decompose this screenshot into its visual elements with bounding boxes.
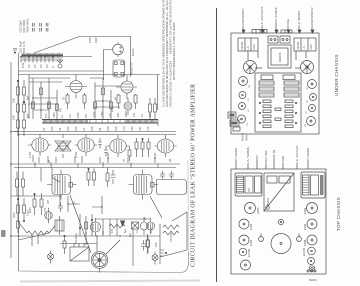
coupling capacitor mid — [58, 202, 63, 212]
capacitor block C5 — [284, 87, 299, 91]
svg-text:4,5: 4,5 — [46, 64, 49, 68]
lower labels right cluster — [102, 216, 173, 247]
svg-text:390Ω: 390Ω — [125, 111, 128, 117]
svg-text:C7: C7 — [83, 127, 86, 131]
valve V11 — [239, 219, 253, 230]
HT drop wire — [130, 36, 132, 77]
mains connector block — [228, 112, 240, 131]
svg-text:OUTPUT IMPEDANCES 4, 8 AND 16: OUTPUT IMPEDANCES 4, 8 AND 16 OHMS — [172, 22, 176, 80]
coupling capacitors left pair — [16, 172, 25, 197]
terminal strip left — [238, 38, 258, 51]
label MAINS TRANS — [272, 149, 276, 169]
svg-text:C8: C8 — [99, 127, 102, 131]
input socket right — [297, 234, 302, 242]
svg-text:10K: 10K — [12, 115, 16, 120]
svg-text:EL84: EL84 — [303, 223, 307, 230]
svg-text:O/P TRANS: O/P TRANS — [306, 148, 310, 164]
anode bus wire — [14, 167, 176, 169]
fuse holder top — [278, 219, 283, 224]
svg-text:V1: V1 — [144, 216, 147, 220]
tag strip end hook — [157, 120, 159, 127]
svg-text:R15: R15 — [75, 126, 78, 131]
svg-text:INPUT: INPUT — [245, 133, 249, 141]
label LOUDSPEAKER TERMINALS — [246, 147, 250, 169]
anode load resistors mid — [33, 193, 43, 215]
connector tab left — [252, 30, 267, 34]
long bus wire A — [14, 131, 176, 133]
pilot lamp L2 — [152, 252, 158, 265]
board interconnect wires — [248, 51, 307, 74]
voltage selector box — [70, 243, 89, 261]
output valve V8 — [107, 135, 129, 157]
svg-text:L.S.: L.S. — [247, 45, 250, 50]
svg-text:C10: C10 — [123, 126, 126, 131]
value labels smoothing block — [19, 40, 27, 53]
splitter anode resistors — [66, 93, 137, 109]
input grid stopper — [17, 221, 20, 233]
stub pair a — [33, 23, 35, 32]
component body on wire a — [32, 102, 51, 109]
socket left b — [239, 92, 246, 99]
tag strip ticks — [43, 120, 156, 124]
svg-text:VOLT SEL: VOLT SEL — [264, 150, 268, 164]
capacitor block C3 — [259, 93, 274, 97]
valve type labels row — [29, 152, 172, 163]
svg-text:R41 4.7K: R41 4.7K — [22, 41, 26, 53]
divider rule — [216, 8, 218, 282]
feedback loop wires — [150, 196, 187, 257]
value labels left chain — [12, 95, 30, 120]
rail junction dots — [10, 131, 19, 237]
parts list column 1 — [162, 0, 166, 107]
svg-text:R21: R21 — [139, 126, 142, 131]
svg-text:47K: 47K — [112, 107, 115, 112]
value labels mid stage — [29, 207, 47, 213]
tag strip rail upper — [42, 119, 158, 121]
svg-text:INPUT: INPUT — [255, 155, 259, 164]
heater cable hatching — [23, 53, 63, 59]
label AC OUTLETS — [260, 6, 264, 33]
svg-text:A.C. OUTLETS: A.C. OUTLETS — [260, 6, 264, 27]
svg-text:R12: R12 — [51, 126, 54, 131]
socket right d — [307, 117, 316, 126]
feedback resistor zigzag — [163, 225, 179, 229]
svg-text:V7: V7 — [123, 158, 126, 162]
outlet box B — [280, 36, 290, 43]
svg-text:V2: V2 — [248, 109, 250, 112]
stub pair b — [40, 23, 42, 32]
connector tab right — [281, 30, 292, 33]
input valve V2 — [91, 218, 101, 236]
capacitor block C6 — [284, 93, 299, 97]
transformer labels T1 — [47, 199, 76, 204]
svg-text:4,5: 4,5 — [34, 64, 37, 68]
HT top wire — [78, 36, 131, 38]
output stage lower right — [147, 218, 155, 234]
svg-text:V8: V8 — [169, 158, 172, 162]
capacitor block C2 — [259, 87, 274, 91]
svg-text:UNDER CHASSIS: UNDER CHASSIS — [334, 54, 339, 96]
svg-text:CIRCUIT DIAGRAM OF LEAK ‘STERE: CIRCUIT DIAGRAM OF LEAK ‘STEREO 60’ POWE… — [190, 84, 197, 267]
svg-text:A.C. OUTLET: A.C. OUTLET — [295, 145, 299, 164]
label INPUT CABLE — [274, 7, 278, 33]
svg-text:47K: 47K — [45, 113, 48, 118]
svg-text:MAINS TR: MAINS TR — [272, 149, 276, 164]
svg-text:130Ω: 130Ω — [102, 162, 105, 168]
svg-text:V6: V6 — [307, 100, 309, 103]
ink blob — [1, 230, 6, 237]
mains transformer top — [264, 173, 294, 211]
svg-text:0.1: 0.1 — [141, 113, 144, 117]
svg-text:O/P TRANS: O/P TRANS — [234, 148, 238, 164]
svg-text:O/P: O/P — [248, 187, 251, 192]
HT rail left — [10, 62, 12, 258]
svg-text:22K: 22K — [12, 98, 16, 103]
socket labels right — [305, 87, 309, 127]
svg-text:1K: 1K — [102, 231, 105, 234]
interconnect wires mid — [19, 168, 61, 207]
interstage coupling network — [55, 134, 71, 158]
mains lead entry — [307, 270, 316, 272]
selector labels — [31, 232, 88, 246]
svg-text:130Ω: 130Ω — [34, 162, 37, 168]
capacitor block C4 — [284, 81, 299, 85]
tag strip rail lower — [42, 122, 158, 124]
pilot lamp — [309, 266, 315, 272]
svg-text:EL84: EL84 — [29, 152, 32, 158]
valve V14 — [241, 260, 251, 270]
socket left d — [238, 115, 246, 123]
svg-text:47Ω: 47Ω — [155, 242, 158, 247]
board caption right — [283, 75, 295, 80]
UNDER CHASSIS — [228, 6, 339, 141]
board bar labels — [0, 0, 1, 1]
lower right parts — [141, 234, 149, 254]
svg-text:L.S.: L.S. — [303, 45, 306, 50]
driver row wire — [95, 218, 150, 220]
svg-text:LOUDSPKR L: LOUDSPKR L — [241, 8, 245, 27]
svg-text:INPUT CABLE: INPUT CABLE — [274, 7, 278, 27]
svg-text:MAINS: MAINS — [37, 236, 40, 244]
svg-text:100K: 100K — [53, 112, 56, 118]
page edge right — [187, 160, 189, 252]
svg-text:0.1: 0.1 — [61, 114, 64, 118]
output transformer right — [301, 172, 325, 198]
mains entry caption — [309, 279, 317, 282]
pilot lamp L1 — [48, 251, 54, 264]
feed wire upper — [19, 70, 104, 72]
capacitor block C1 — [259, 81, 274, 85]
centre resistor pair — [275, 108, 281, 120]
heater stub wires — [21, 57, 53, 63]
svg-text:1M: 1M — [69, 115, 72, 118]
svg-text:47K: 47K — [44, 207, 47, 212]
svg-text:FUSE: FUSE — [281, 156, 285, 164]
label VOLTAGE SELECTOR — [264, 150, 268, 169]
bias network centre right — [135, 138, 150, 157]
cathode stubs row — [33, 155, 155, 163]
svg-text:EL84: EL84 — [75, 152, 78, 158]
svg-text:47K: 47K — [133, 112, 136, 117]
decoupling chain pair R5 R6 — [17, 120, 26, 136]
driver stage parts right — [149, 98, 157, 120]
driver choke — [55, 216, 64, 235]
socket left a — [239, 77, 248, 86]
parts list column 3 — [169, 0, 173, 107]
terminal strip right — [294, 38, 316, 51]
parts list column 4 — [172, 22, 176, 80]
label AC OUTLETS TOP — [295, 145, 299, 169]
label LOUDSPEAKER L — [241, 8, 245, 33]
second stage cluster — [79, 214, 92, 236]
output transformer left — [235, 173, 262, 196]
svg-text:FB 470K: FB 470K — [170, 232, 173, 242]
socket labels left — [247, 85, 251, 126]
socket right a — [308, 80, 317, 89]
svg-text:EF86: EF86 — [303, 239, 307, 246]
svg-text:V4: V4 — [249, 85, 251, 88]
mains input caption — [241, 133, 249, 141]
output valve V6 — [28, 134, 51, 156]
wire diagonal to HT line — [34, 37, 78, 53]
component body on wire b — [40, 88, 59, 111]
output transformer T2 — [129, 170, 159, 200]
component body on wire c — [94, 102, 113, 109]
svg-text:VOLTAGE: VOLTAGE — [75, 233, 78, 244]
svg-text:15Ω 8Ω: 15Ω 8Ω — [297, 42, 300, 50]
input coupling wires — [19, 222, 56, 240]
heater pin labels — [22, 63, 55, 68]
svg-text:C5: C5 — [59, 127, 62, 131]
svg-text:8µF: 8µF — [124, 228, 127, 233]
svg-text:LOUDSPKR R: LOUDSPKR R — [310, 7, 314, 27]
value labels below strip — [43, 126, 150, 131]
value labels lower row — [111, 227, 153, 233]
junction dots lower — [59, 195, 120, 236]
cathode resistor labels — [34, 162, 160, 168]
rail tie stubs — [11, 132, 19, 237]
svg-text:GZ34: GZ34 — [131, 48, 135, 56]
svg-text:440V: 440V — [89, 37, 92, 43]
DIVIDER — [216, 8, 218, 282]
TOP CHASSIS — [231, 145, 341, 282]
svg-text:C12: C12 — [147, 126, 150, 131]
svg-text:ECC81: ECC81 — [302, 247, 306, 256]
electrolytic marker — [120, 221, 125, 228]
svg-text:4,5: 4,5 — [28, 64, 31, 68]
svg-text:82K: 82K — [117, 112, 120, 117]
svg-text:22K: 22K — [149, 112, 152, 117]
resistor column right — [285, 100, 297, 128]
speaker terminal marks — [160, 250, 167, 256]
svg-text:350V WKG: 350V WKG — [26, 19, 30, 33]
resistor column left — [259, 100, 271, 128]
rectifier heater lead — [104, 50, 113, 81]
svg-text:470K: 470K — [13, 212, 16, 218]
svg-text:V3: V3 — [48, 159, 51, 163]
svg-text:COM: COM — [253, 44, 256, 50]
output valve V7 — [75, 134, 97, 156]
value labels input chain — [13, 209, 30, 218]
right feed rail — [157, 75, 159, 110]
svg-text:A.C. MAINS: A.C. MAINS — [297, 11, 301, 27]
input valve V1 — [45, 208, 53, 224]
mains transformer symbol — [113, 60, 125, 77]
valve base V2 — [301, 61, 314, 74]
lower bus wire 2 — [60, 243, 97, 245]
socket left c — [239, 103, 246, 110]
grid stopper marks row — [98, 138, 131, 161]
stub pair c — [46, 23, 48, 32]
earth rail — [18, 53, 20, 271]
grid leak resistor zigzag — [27, 231, 49, 235]
feedback loop box — [156, 180, 186, 195]
heater wire continuation — [63, 56, 92, 58]
decoupling chain pair R1 R2 — [17, 80, 26, 104]
svg-text:T1: T1 — [73, 201, 76, 204]
label FUSE TOP — [281, 156, 285, 169]
TITLE — [190, 84, 197, 267]
grid feed wire — [28, 75, 30, 120]
svg-text:6.3V: 6.3V — [22, 63, 25, 68]
decoupling chain pair R3 R4 — [17, 101, 26, 120]
valve V10 — [245, 203, 261, 215]
triode section small circle — [124, 98, 132, 115]
value labels above strip — [45, 111, 152, 118]
chassis outline — [231, 33, 319, 134]
svg-text:FUSE: FUSE — [286, 19, 290, 27]
reservoir capacitor can — [271, 234, 291, 254]
svg-text:47K: 47K — [111, 228, 114, 233]
valve V17 — [303, 235, 317, 246]
label FUSE — [286, 19, 290, 33]
svg-text:C4: C4 — [43, 127, 46, 131]
junction dots mid — [32, 97, 103, 110]
smoothing capacitor C30 — [13, 49, 17, 54]
svg-text:470K: 470K — [77, 112, 80, 118]
label OUTPUT TRANSFORMER L — [234, 148, 238, 169]
label INPUT SOCKET — [255, 155, 259, 169]
feed wire lower — [19, 74, 161, 76]
HT feed labels — [89, 37, 98, 43]
valve V19 — [308, 258, 315, 265]
svg-text:EL84: EL84 — [107, 153, 110, 159]
coupling wires horizontal — [28, 78, 121, 110]
socket right c — [309, 105, 316, 112]
input chain resistors — [17, 198, 26, 222]
svg-text:420V: 420V — [95, 37, 98, 43]
parts list column 2 — [165, 0, 169, 107]
mains plug wheel — [91, 252, 108, 273]
svg-text:R20: R20 — [131, 126, 134, 131]
speaker matching resistors — [87, 168, 96, 186]
svg-text:R14: R14 — [67, 126, 70, 131]
svg-text:MAINS: MAINS — [266, 198, 270, 206]
screen bus wire — [19, 163, 181, 165]
svg-text:200-250V: 200-250V — [31, 235, 34, 246]
long bus wire B — [19, 134, 177, 136]
hum balance pot — [57, 59, 63, 68]
label AC MAINS — [297, 11, 301, 33]
svg-text:EL84: EL84 — [154, 153, 157, 159]
driver row drops — [103, 219, 160, 266]
divider network — [106, 168, 116, 188]
svg-text:R18: R18 — [107, 126, 110, 131]
svg-text:EL84: EL84 — [249, 223, 253, 230]
value labels top left block — [19, 19, 30, 33]
screen feed wires — [68, 196, 102, 214]
valve V15 — [303, 203, 318, 215]
svg-text:GZ34: GZ34 — [256, 207, 260, 214]
anode zigzag resistor — [109, 224, 125, 228]
svg-text:EL84: EL84 — [303, 207, 307, 214]
svg-text:MAINS: MAINS — [309, 279, 317, 282]
output transformer T1 — [47, 170, 77, 200]
label OUTPUT TRANSFORMER R — [306, 148, 310, 169]
svg-text:MAINS: MAINS — [278, 52, 282, 62]
valve V12 — [239, 235, 253, 246]
svg-text:1M: 1M — [109, 114, 112, 117]
valve V16 — [303, 219, 317, 230]
svg-text:0.25: 0.25 — [93, 112, 96, 117]
svg-text:47K: 47K — [85, 113, 88, 118]
svg-text:4,5: 4,5 — [40, 64, 43, 68]
svg-text:L.S. TERMS: L.S. TERMS — [246, 147, 250, 164]
heater junction dots — [20, 56, 54, 58]
svg-text:O/P: O/P — [47, 199, 50, 204]
svg-text:V2: V2 — [63, 96, 66, 100]
svg-text:100K: 100K — [130, 162, 133, 168]
svg-text:15Ω 8Ω: 15Ω 8Ω — [241, 42, 244, 50]
svg-text:100K: 100K — [101, 111, 104, 117]
rectifier valve V5 GZ34 — [113, 42, 124, 57]
outlet box A — [268, 36, 278, 43]
svg-text:MAINS: MAINS — [241, 133, 245, 141]
component body on wire d — [102, 88, 105, 95]
valve base V1 — [244, 61, 257, 74]
svg-text:EL84: EL84 — [249, 239, 253, 246]
splitter labels right — [112, 96, 118, 112]
feedback resistor zigzag B — [163, 231, 179, 235]
phase splitter valve V3 — [65, 75, 87, 99]
bias resistors lower — [132, 217, 150, 253]
svg-text:V8: V8 — [305, 124, 307, 127]
splitter labels left — [60, 96, 66, 112]
input socket left — [259, 234, 264, 242]
output valve V9 — [154, 135, 176, 157]
svg-text:9: 9 — [52, 66, 55, 68]
page edge shadow — [20, 281, 200, 282]
valve V13 — [239, 248, 251, 257]
svg-text:R16: R16 — [91, 126, 94, 131]
heater cable bus — [22, 55, 64, 57]
svg-text:V1: V1 — [247, 123, 249, 126]
valve V18 — [302, 247, 315, 256]
svg-text:V7: V7 — [306, 111, 308, 114]
grid wires column group — [33, 78, 111, 119]
svg-text:TOP CHASSIS: TOP CHASSIS — [336, 197, 341, 231]
svg-text:220K: 220K — [29, 207, 32, 213]
tag board outline — [255, 73, 301, 132]
svg-text:1K: 1K — [136, 230, 139, 233]
label LOUDSPEAKER R — [310, 7, 314, 33]
svg-text:ECC81: ECC81 — [247, 248, 251, 257]
phase splitter valve V4 — [116, 75, 137, 99]
mains transformer MT — [268, 45, 291, 68]
selector feed parts — [63, 235, 66, 254]
heater return wire — [22, 59, 64, 61]
svg-text:R19: R19 — [115, 126, 118, 131]
